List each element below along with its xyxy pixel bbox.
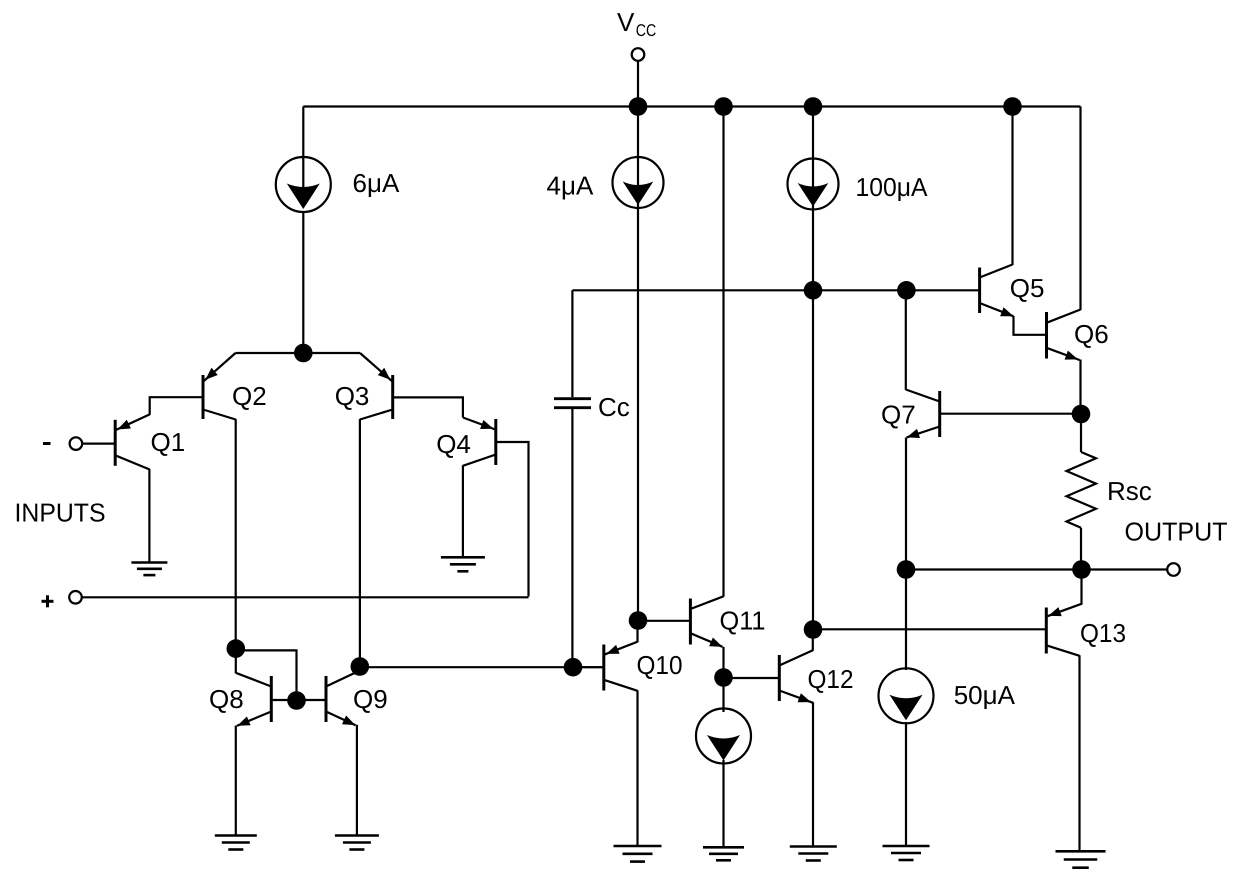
wire Q5 emitter to Q6 base	[1014, 316, 1047, 335]
wire Q11 emitter down	[722, 647, 724, 678]
svg-text:OUTPUT: OUTPUT	[1125, 517, 1228, 547]
wire Q5 collector up	[1011, 107, 1013, 266]
label 50uA	[954, 680, 1016, 710]
transistor Q7	[906, 390, 940, 439]
transistor Q9	[297, 671, 360, 726]
output terminal	[1082, 563, 1180, 576]
node Q2-Q8 junction	[227, 639, 246, 658]
transistor Q10	[573, 642, 638, 691]
ground under Q4	[441, 557, 485, 571]
current source 6uA	[276, 107, 331, 354]
svg-text:Q12: Q12	[808, 664, 854, 694]
wire Q7 collector up	[905, 290, 907, 390]
ground under Q9	[335, 836, 379, 850]
wire Q3 base to Q4 emitter	[393, 397, 463, 417]
label minus sign	[43, 442, 51, 445]
current source 50uA	[879, 570, 934, 847]
label VCC	[617, 7, 656, 40]
wire Q7 base line	[940, 413, 1081, 415]
wire Q11 collector up	[722, 107, 724, 597]
ground under Q1	[131, 563, 167, 576]
svg-text:Q1: Q1	[151, 427, 186, 457]
wire Q4 collector down	[462, 465, 464, 557]
label 100uA	[856, 172, 929, 202]
node Q6-Q7-Rsc junction	[1072, 405, 1091, 424]
label Q13	[1080, 618, 1126, 648]
node 100uA node-line junction	[804, 281, 823, 300]
node Q12 collector junction	[804, 620, 823, 639]
ground under 50uA	[883, 846, 930, 860]
node tail junction	[294, 344, 313, 363]
transistor Q4	[463, 418, 496, 466]
transistor Q3	[360, 353, 393, 420]
svg-text:Q6: Q6	[1074, 319, 1109, 349]
wire output node line	[906, 568, 1082, 570]
label 4uA	[547, 171, 594, 201]
svg-text:50μA: 50μA	[954, 680, 1016, 710]
svg-text:Q3: Q3	[335, 381, 370, 411]
node output junction	[1072, 560, 1091, 579]
node Q7-50uA junction	[897, 560, 916, 579]
node Q10 emitter junction	[629, 611, 648, 630]
node Q11-Q12 junction	[714, 668, 733, 687]
wire mirror output to Q10 base	[360, 666, 604, 668]
label 6uA	[353, 168, 400, 198]
wire Q8 collector up	[235, 649, 237, 674]
ground under Q13	[1056, 851, 1106, 867]
ground under Q12	[790, 847, 837, 861]
svg-text:Q4: Q4	[436, 429, 471, 459]
wire input-pair tail rail	[236, 352, 361, 354]
transistor Q5	[980, 265, 1014, 317]
wire Q13 base line	[813, 628, 1046, 630]
svg-text:100μA: 100μA	[856, 172, 929, 202]
transistor Q13	[1046, 570, 1081, 656]
transistor Q12	[724, 650, 814, 703]
label Q10	[637, 650, 683, 680]
ground under Q8	[215, 836, 257, 850]
svg-text:INPUTS: INPUTS	[15, 498, 106, 528]
wire Q7 emitter down	[905, 438, 907, 570]
label OUTPUT	[1125, 517, 1228, 547]
svg-text:Q13: Q13	[1080, 618, 1126, 648]
svg-text:Q5: Q5	[1010, 273, 1045, 303]
wire node line to Q5 base	[572, 289, 979, 291]
wire Q12 collector up	[812, 630, 814, 651]
current source under Q11	[696, 678, 751, 848]
transistor Q6	[1047, 310, 1081, 361]
resistor Rsc	[1067, 414, 1097, 570]
current source 4uA	[613, 107, 664, 621]
svg-text:Q10: Q10	[637, 650, 683, 680]
node rail-Q5 junction	[1003, 97, 1022, 116]
label Q3	[335, 381, 370, 411]
transistor Q8	[236, 673, 297, 726]
label Rsc	[1107, 476, 1152, 506]
label Cc	[598, 392, 630, 422]
capacitor Cc	[554, 290, 591, 667]
wire Q8 emitter down	[235, 726, 237, 836]
node Q8-Q9 base junction	[287, 691, 306, 710]
node rail-Q11 junction	[714, 97, 733, 116]
label Q1	[151, 427, 186, 457]
input terminal minus	[70, 437, 116, 450]
label Q11	[720, 606, 766, 636]
transistor Q11	[638, 596, 724, 647]
wire Q1 emitter to Q2 base	[150, 397, 203, 415]
svg-text:CC: CC	[636, 21, 657, 40]
node node-line Q7 junction	[897, 281, 916, 300]
ground under Q10	[614, 846, 662, 862]
label Q5	[1010, 273, 1045, 303]
label Q6	[1074, 319, 1109, 349]
svg-text:V: V	[617, 7, 635, 37]
transistor Q1	[115, 414, 150, 469]
transistor Q2	[203, 353, 236, 420]
svg-text:Cc: Cc	[598, 392, 630, 422]
label Q9	[353, 684, 388, 714]
wire Q6 collector up	[1079, 107, 1081, 311]
svg-text:Q2: Q2	[232, 381, 267, 411]
wire plus input line	[83, 596, 529, 598]
wire Q3 collector down	[359, 419, 361, 667]
svg-text:Q7: Q7	[881, 400, 916, 430]
ground under Q11 source	[703, 847, 744, 860]
label Q2	[232, 381, 267, 411]
wire Q2 collector to mirror link	[236, 650, 297, 701]
wire Q12 emitter down	[812, 702, 814, 846]
wire Q6 emitter down	[1079, 360, 1081, 415]
input terminal plus	[42, 591, 82, 607]
node rail-100uA junction	[804, 97, 823, 116]
label Q4	[436, 429, 471, 459]
svg-text:Q9: Q9	[353, 684, 388, 714]
svg-text:Q8: Q8	[209, 684, 244, 714]
wire Q2 collector down	[235, 419, 237, 649]
wire top VCC rail	[303, 105, 1080, 107]
node rail-4uA junction	[629, 97, 648, 116]
label Q12	[808, 664, 854, 694]
wire Q13 collector down	[1078, 655, 1080, 851]
svg-text:6μA: 6μA	[353, 168, 400, 198]
label Q7	[881, 400, 916, 430]
node Cc-Q10 junction	[564, 658, 583, 677]
svg-text:Rsc: Rsc	[1107, 476, 1152, 506]
wire Q4 base to plus line	[496, 442, 529, 597]
wire Q10 emitter up	[636, 621, 638, 643]
label INPUTS	[15, 498, 106, 528]
label Q8	[209, 684, 244, 714]
wire Q10 collector down	[636, 690, 638, 846]
svg-text:Q11: Q11	[720, 606, 766, 636]
svg-text:4μA: 4μA	[547, 171, 594, 201]
wire Q9 emitter down	[356, 725, 358, 836]
power terminal VCC	[632, 48, 645, 106]
wire Q1 collector down	[148, 469, 150, 563]
current source 100uA	[788, 107, 839, 630]
node Q9 collector junction	[351, 657, 370, 676]
